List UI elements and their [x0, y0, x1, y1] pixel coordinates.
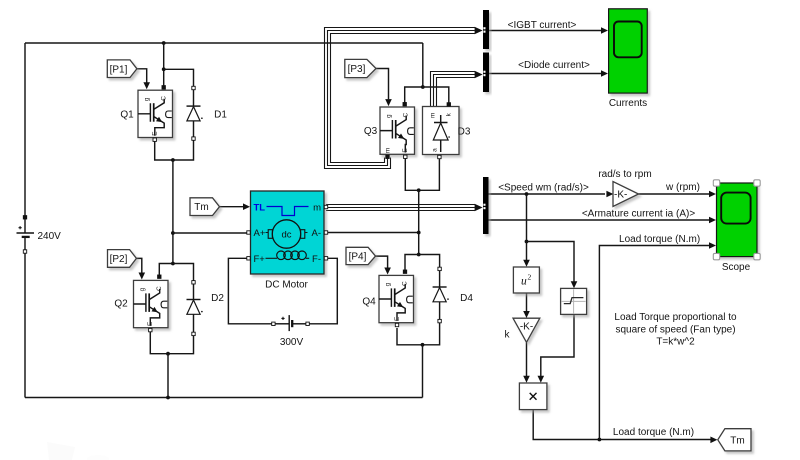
- From tag P4: [346, 247, 376, 264]
- scope Scope (selected): [713, 180, 760, 260]
- svg-text:Tm: Tm: [730, 435, 744, 446]
- junction Q1/D1 bottom node: [171, 158, 175, 162]
- wire Speed to gain: [489, 193, 606, 195]
- wire Q1 collector feed: [163, 43, 165, 86]
- wire motor F+ to 300V: [228, 258, 272, 324]
- junction A+ tap: [171, 231, 175, 235]
- svg-text:C: C: [401, 281, 408, 286]
- wire 300V to motor F-: [309, 258, 337, 324]
- wire Q4 emitter drop: [397, 328, 423, 345]
- svg-text:C: C: [402, 113, 409, 118]
- Goto tag Tm: [718, 429, 751, 451]
- junction Q4/D4 bottom node: [421, 343, 425, 347]
- From tag P2: [108, 250, 137, 268]
- svg-text:[P2]: [P2]: [110, 254, 128, 265]
- svg-text:D3: D3: [458, 127, 471, 138]
- wire P2 to Q2 gate: [136, 258, 141, 272]
- svg-text:dc: dc: [281, 230, 291, 241]
- wire P1 to Q1 gate: [137, 69, 147, 83]
- svg-text:w (rpm): w (rpm): [665, 182, 700, 193]
- wire mid column A+ node: [172, 160, 174, 264]
- junction Q3/D3 top node: [421, 85, 425, 89]
- wire gain k to product: [526, 343, 528, 377]
- svg-text:g: g: [385, 282, 392, 286]
- wire gain to Scope input 1: [639, 193, 710, 195]
- bus selector IGBT current: [483, 10, 489, 49]
- vector wire Q3 m to IGBT-current bus: [325, 28, 475, 169]
- svg-text:<Armature current ia (A)>: <Armature current ia (A)>: [582, 208, 696, 219]
- wire to motor A+: [173, 232, 247, 234]
- From tag P1: [107, 60, 137, 78]
- wire A- column: [418, 190, 420, 254]
- svg-text:Load torque (N.m): Load torque (N.m): [613, 427, 694, 438]
- junction Q2/D2 top node: [171, 262, 175, 266]
- wire Q4 bottom to rail: [422, 345, 424, 398]
- svg-text:Scope: Scope: [722, 262, 751, 273]
- wire load torque to Scope input 3: [599, 246, 709, 440]
- junction bottom rail: [166, 396, 170, 400]
- wire D4 anode drop: [423, 323, 440, 345]
- wire top rail to Q3/D3: [422, 43, 424, 87]
- gain k (fan torque): [513, 318, 540, 342]
- svg-text:F+: F+: [254, 254, 266, 265]
- wire Q3 collector feed: [405, 87, 449, 103]
- IGBT Q3: [380, 103, 415, 159]
- svg-text:square of speed (Fan type): square of speed (Fan type): [615, 324, 735, 335]
- DC Motor block: [247, 191, 328, 274]
- wire Q1 emitter drop: [155, 142, 173, 161]
- svg-text:[P3]: [P3]: [348, 64, 366, 75]
- svg-text:g: g: [144, 97, 151, 101]
- svg-text:m: m: [313, 203, 321, 214]
- vector wire D3 m to Diode-current bus: [431, 72, 475, 107]
- wire left rail upper: [24, 43, 26, 217]
- DC source 300V: [272, 315, 310, 331]
- junction speed branch: [525, 240, 529, 244]
- svg-text:E: E: [402, 148, 409, 153]
- svg-text:a: a: [432, 148, 439, 152]
- math function u^2: [513, 267, 539, 293]
- svg-text:D2: D2: [211, 293, 224, 304]
- diode D2: [187, 281, 203, 336]
- wire D2 anode drop: [168, 336, 194, 354]
- wire Diode current to Currents scope: [489, 73, 602, 75]
- wire speed branch down: [526, 194, 528, 242]
- svg-text:<IGBT current>: <IGBT current>: [508, 20, 577, 31]
- wire Q2 bottom to rail: [167, 354, 169, 398]
- wire top rail (+): [25, 42, 423, 44]
- svg-text:300V: 300V: [280, 337, 304, 348]
- svg-text:g: g: [386, 114, 393, 118]
- product block: [519, 383, 547, 410]
- wire From tag Tm to TL: [220, 206, 244, 208]
- diode D1: [187, 86, 203, 140]
- svg-text:k: k: [505, 330, 511, 341]
- From tag P3: [345, 59, 376, 77]
- IGBT Q2: [134, 275, 169, 332]
- wire Q4 collector feed: [405, 255, 419, 271]
- svg-text:A+: A+: [254, 228, 266, 239]
- svg-text:m: m: [430, 113, 437, 118]
- junction Q1/D1 top node: [162, 67, 166, 71]
- svg-text:-K-: -K-: [614, 189, 627, 200]
- svg-text:DC Motor: DC Motor: [265, 280, 308, 291]
- From tag Tm: [190, 198, 220, 216]
- svg-text:m: m: [385, 148, 392, 153]
- junction Q2/D2 bottom node: [166, 352, 170, 356]
- field winding coil: [266, 257, 278, 259]
- wire D1 cathode feed: [164, 69, 194, 86]
- junction A- tap: [417, 231, 421, 235]
- svg-text:A-: A-: [312, 228, 322, 239]
- svg-text:E: E: [152, 131, 159, 136]
- svg-text:F-: F-: [312, 254, 321, 265]
- wire left rail lower: [24, 252, 26, 398]
- svg-text:240V: 240V: [38, 231, 62, 242]
- wire P4 to Q4 gate: [376, 256, 388, 268]
- svg-text:C: C: [156, 286, 163, 291]
- svg-text:2: 2: [528, 273, 532, 282]
- svg-text:T=k*w^2: T=k*w^2: [656, 337, 695, 348]
- svg-text:C: C: [160, 96, 167, 101]
- svg-text:D4: D4: [460, 293, 473, 304]
- wire D1 anode drop: [173, 140, 194, 160]
- IGBT Q1: [138, 86, 173, 142]
- svg-text:g: g: [139, 287, 146, 291]
- wire product to Goto Tm: [533, 410, 711, 440]
- motor armature circle dc: [272, 220, 300, 248]
- DC source 240V: [17, 216, 35, 254]
- wire D4 cathode feed: [419, 255, 440, 268]
- wire Q2 emitter drop: [150, 332, 168, 354]
- selection handles: [713, 180, 719, 186]
- saturation block: [561, 288, 587, 314]
- wire P3 to Q3 gate: [376, 69, 389, 100]
- wire D2 cathode feed: [173, 264, 194, 281]
- motor ports: [247, 231, 250, 234]
- wire Q2 collector feed: [159, 264, 173, 276]
- svg-text:E: E: [394, 316, 401, 321]
- diode block D3: [423, 103, 460, 159]
- svg-text:D1: D1: [214, 110, 227, 121]
- annotation fan torque note: [614, 312, 737, 348]
- svg-text:E: E: [147, 321, 154, 326]
- wire saturation to product: [541, 315, 574, 376]
- svg-text:TL: TL: [254, 203, 266, 214]
- wire IGBT current to Currents scope: [489, 30, 602, 32]
- wire branch to saturation: [527, 242, 575, 282]
- bus selector speed/current: [483, 177, 489, 234]
- svg-text:Q1: Q1: [120, 110, 134, 121]
- wire Q3 emitter drop: [405, 159, 418, 191]
- wire branch to u2: [526, 242, 528, 261]
- svg-text:<Diode current>: <Diode current>: [518, 60, 590, 71]
- wire Armature current to Scope input 2: [489, 219, 710, 221]
- svg-text:Load Torque proportional to: Load Torque proportional to: [614, 312, 737, 323]
- gain rad/s to rpm: [613, 182, 639, 207]
- svg-text:-K-: -K-: [520, 322, 533, 333]
- wire D3 anode drop: [419, 159, 440, 191]
- svg-text:Q4: Q4: [362, 297, 376, 308]
- bus selector Diode current: [483, 53, 489, 93]
- junction speed tap: [525, 192, 529, 196]
- wire u2 to gain k: [526, 294, 528, 312]
- svg-text:Tm: Tm: [194, 202, 208, 213]
- vector wire motor m to bus selector: [326, 205, 475, 211]
- watermark smudge bottom-left: [47, 442, 109, 460]
- svg-text:[P4]: [P4]: [349, 252, 367, 263]
- svg-text:u: u: [521, 276, 527, 288]
- svg-text:[P1]: [P1]: [110, 64, 128, 75]
- junction top rail to Q1: [162, 41, 166, 45]
- svg-text:rad/s to rpm: rad/s to rpm: [598, 169, 651, 180]
- svg-text:Q3: Q3: [364, 126, 378, 137]
- svg-text:Currents: Currents: [609, 98, 647, 109]
- wire motor A- to column: [326, 232, 419, 234]
- svg-text:Load torque (N.m): Load torque (N.m): [619, 234, 700, 245]
- wire bottom rail (-): [25, 397, 423, 399]
- junction load torque tap: [598, 438, 602, 442]
- scope Currents: [609, 9, 648, 93]
- diode D4: [433, 267, 449, 323]
- IGBT Q4: [379, 270, 414, 327]
- junction Q3/D3 bottom node: [417, 188, 421, 192]
- svg-text:<Speed wm (rad/s)>: <Speed wm (rad/s)>: [498, 182, 589, 193]
- svg-text:Q2: Q2: [114, 299, 128, 310]
- junction Q4/D4 top node: [417, 253, 421, 257]
